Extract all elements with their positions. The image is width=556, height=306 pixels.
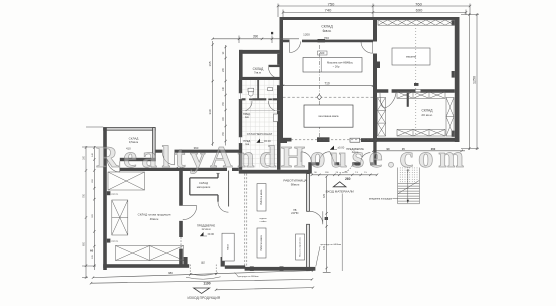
svg-text:6кв.м.: 6кв.м. [323,29,332,33]
extension line down [341,194,343,272]
sklad20 racks left [378,98,386,137]
svg-text:600: 600 [320,51,325,55]
wall D column bottom / workshop top [239,170,310,174]
dim line under right block [372,150,465,152]
svg-text:~ 2бр: ~ 2бр [333,65,340,69]
skald6 bottom wall [283,40,373,43]
svg-text:1190: 1190 [203,281,210,285]
svg-text:760: 760 [415,1,422,6]
svg-text:маса: маса [227,244,229,250]
door skald6 [290,42,301,53]
wall under preddverie [225,265,245,268]
middle vertical wall between halls [373,20,377,142]
exit opening dashed jambs [190,265,216,277]
workshop right wall [307,174,310,212]
svg-text:165: 165 [208,61,212,66]
connector piece [308,162,312,173]
svg-text:Маса за обработка: Маса за обработка [299,237,301,257]
shower rect [274,114,279,122]
dotted centre axis right room [415,28,417,135]
workshop door arc [310,211,323,224]
svg-text:ПРЕДДВЕРИЕ: ПРЕДДВЕРИЕ [197,223,215,227]
right vertical dimension lines [461,13,479,150]
svg-text:1250: 1250 [472,76,476,84]
sklad7 door arc [269,67,280,78]
door leaf perpendicular [407,93,409,107]
window gap 1 in left wall [239,93,243,99]
sink [268,88,273,91]
door arc hall to right room [361,42,373,54]
svg-text:Работна маса: Работна маса [260,235,263,251]
main room top wall extending to column [120,168,239,171]
svg-text:стойка: стойка [260,220,268,223]
right room table [392,48,430,65]
rack top [108,172,145,190]
wall corner vertical right of vestibule [373,142,376,166]
door leaf marks [249,99,252,101]
svg-text:ПР1Т1: ПР1Т1 [111,194,119,196]
line B [90,278,313,284]
dark blob on wall [318,39,326,42]
svg-text:ЩО: ЩО [201,262,205,265]
extension line to left dims [86,126,103,128]
vertical dim line x212 [212,41,214,146]
tile edge line [242,110,281,112]
top dimension line row2 [282,10,467,18]
X rack band along top of right hall [378,20,455,25]
svg-text:20 кв.м.: 20 кв.м. [421,113,432,117]
svg-text:СТАЯ ПЕРСОНАЛ: СТАЯ ПЕРСОНАЛ [247,132,273,136]
right wall pilasters [452,20,455,25]
sklad95 door arc [107,160,120,173]
svg-text:СКЛАД: СКЛАД [421,109,433,113]
rack bottom [116,246,184,261]
svg-text:260: 260 [345,177,351,181]
svg-text:ИЗХОД ПРОДУКЦИЯ: ИЗХОД ПРОДУКЦИЯ [188,296,221,300]
wall piers with labels [107,191,111,195]
svg-text:370: 370 [323,193,326,198]
wall E vestibule door wall [312,162,374,165]
wall7 corridor north wall [156,150,241,153]
upper block left wall [280,17,284,142]
step at junction [281,139,288,143]
machine table left hall [303,58,362,73]
dashed opening second [180,237,182,249]
svg-text:RealtyAndHouse.com: RealtyAndHouse.com [96,139,464,174]
pier left of exit [183,257,187,267]
corridor partition line [228,171,230,207]
upper block bottom wall right section [377,138,460,142]
column right wall lower [277,85,281,170]
main room right wall [179,169,183,267]
sklad20 racks right [446,98,454,137]
wc partition wall [242,98,281,100]
window outline in wall [415,90,420,93]
big assembly table [304,105,353,127]
line A [92,269,314,278]
stairs leader and label [393,197,398,199]
window gap 2 in left wall [239,137,243,143]
svg-text:подова: подова [259,218,267,220]
sklad7 door lintel stub [269,65,281,67]
svg-text:7кв.м: 7кв.м [254,71,261,75]
exit triangle [194,288,210,293]
elevation +0.30 [175,167,178,170]
sklad95 bottom wall stub [120,158,156,161]
svg-text:980: 980 [168,271,173,275]
svg-text:СКЛАД: СКЛАД [199,181,208,185]
svg-text:1200: 1200 [303,33,310,37]
svg-text:ПВ: ПВ [293,210,297,212]
top dimension line row1 [277,4,471,18]
svg-text:ВХОД МАТЕРИАЛИ: ВХОД МАТЕРИАЛИ [326,189,354,193]
cabinet rect [222,233,234,261]
elevation mark preddverie [200,232,204,236]
svg-text:монтажна маса: монтажна маса [318,114,338,118]
elevation mark vestibule [330,146,334,150]
left wall pilaster right room [377,62,380,69]
svg-text:60: 60 [90,249,94,253]
svg-text:690: 690 [416,8,423,13]
svg-text:материали: материали [197,186,211,189]
corridor door arc [163,153,175,165]
svg-text:12 кв.м: 12 кв.м [202,227,211,231]
workshop left dashed boundary [245,174,247,267]
entrance triangle vhod [333,182,346,187]
rack left mid [112,200,128,235]
sklad95 top wall [104,128,156,131]
dashed sill line across openings [283,139,377,141]
svg-text:240*80: 240*80 [291,213,299,215]
upper block right wall [455,17,460,142]
tiny label under wall [318,51,328,55]
sklad20 racks bottom [397,130,445,137]
materiali door arc [218,202,228,212]
bottom wall piers [250,266,254,271]
svg-text:330: 330 [208,109,212,114]
stall divider vertical [257,80,259,98]
bottom wall left block [103,264,189,268]
svg-text:ПР1Т1: ПР1Т1 [111,241,119,243]
dim line 710 [282,85,374,87]
line C [215,286,314,291]
svg-text:740: 740 [325,8,332,13]
svg-text:46кв.м: 46кв.м [150,217,159,221]
svg-text:Работна маса: Работна маса [260,189,263,205]
elevation mark 0.00 staff [257,139,261,143]
door arcs on wall E [301,152,312,162]
sklad materiali C partition [190,173,218,202]
black mark above wall [414,83,419,86]
door arc main to corridor [183,206,197,220]
svg-text:710: 710 [324,82,330,86]
dim 390 line [212,36,300,44]
vertical micro dim x225.6 [224,45,226,146]
stoop curves [190,273,216,275]
bottom wall dark segment [361,138,377,142]
svg-text:390: 390 [253,35,259,39]
wc door arcs [245,101,252,111]
svg-text:1кв: 1кв [245,116,249,119]
bottom wall black pier [317,137,330,142]
sklad95 right wall [153,128,156,161]
door arcs sklad20 double swing [380,93,396,108]
svg-text:750: 750 [328,1,335,6]
workshop right vertical dim [323,175,331,272]
svg-text:±0.00: ±0.00 [208,232,215,236]
toilet [248,88,254,92]
left wall whole block [103,127,107,270]
sklad7 bottom wall [239,77,281,80]
svg-text:98кв.м: 98кв.м [291,183,300,187]
sklad20 racks top [397,92,445,99]
upper block top wall [280,17,460,20]
svg-text:преграда на 4400мм: преграда на 4400мм [238,276,259,278]
column left wall lower [239,80,242,170]
dash-dot axis vertical [318,45,320,140]
bathroom tile grid [242,80,281,168]
column top wall [239,50,283,54]
bottom wall white frame segment [350,138,360,142]
bench 3 [296,234,305,260]
dim line G under vestibule [311,174,379,176]
pier right of exit [221,257,225,267]
workshop bottom wall [245,267,316,271]
sklad7 left wall [239,50,243,80]
dashed line with diamond [283,96,377,98]
sklad7 right wall upper [277,54,280,65]
svg-text:междинна площадка: междинна площадка [369,197,393,200]
bottom wall left stub [280,138,292,142]
svg-text:машина: машина [406,56,416,59]
wall between right room and sklad20 [377,89,455,93]
bench 2 [257,228,266,258]
bench 1 [257,184,266,211]
svg-text:Машина зач-НВ4Вос: Машина зач-НВ4Вос [327,61,354,65]
svg-text:преграда на 4400мм: преграда на 4400мм [320,244,341,246]
